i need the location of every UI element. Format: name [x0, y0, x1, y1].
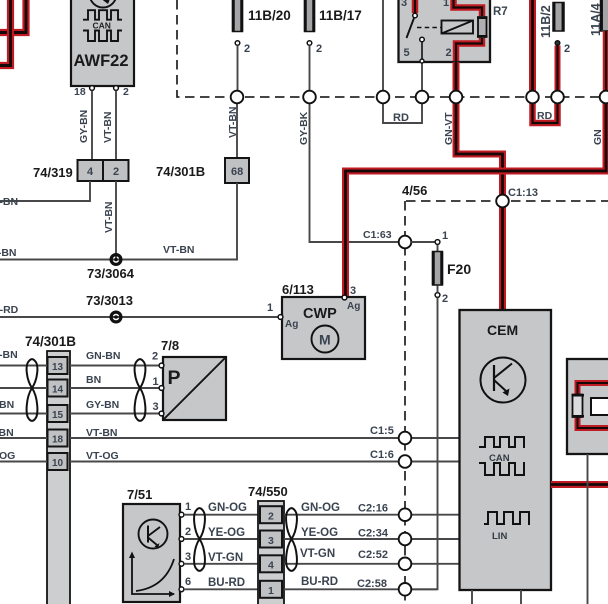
- svg-text:AWF22: AWF22: [74, 52, 129, 70]
- 74/550 pin 1: [260, 581, 282, 598]
- svg-text:VT-BN: VT-BN: [103, 202, 115, 234]
- pin 15: [48, 405, 68, 422]
- svg-text:74/319: 74/319: [33, 165, 73, 180]
- svg-text:74/301B: 74/301B: [156, 164, 205, 179]
- svg-text:M: M: [319, 332, 331, 348]
- wire red stub into relay pin 3: [412, 0, 419, 13]
- svg-text:GY-BN: GY-BN: [86, 399, 119, 411]
- svg-text:YE-OG: YE-OG: [208, 527, 245, 539]
- wire RD U-loop joining bus nodes below relay: [383, 104, 422, 124]
- svg-text:6: 6: [185, 576, 191, 588]
- wires into 74/301B from left edge: [0, 365, 47, 367]
- central electronic module CEM: [460, 310, 552, 590]
- twisted pair symbol right (before 7/8): [135, 359, 146, 421]
- svg-text:Y-BN: Y-BN: [0, 196, 18, 208]
- svg-text:BU-RD: BU-RD: [301, 576, 338, 588]
- 74/550 strip: [258, 501, 284, 604]
- svg-text:CEM: CEM: [487, 322, 518, 338]
- node C1:13: [496, 195, 509, 208]
- svg-text:GN-BN: GN-BN: [86, 350, 120, 362]
- wire red relay pin1 to resistor: [454, 0, 483, 16]
- F20 pin 2 terminal: [435, 293, 440, 298]
- terminal pin 2 of fuse 11B/17: [307, 41, 312, 46]
- 74/550 pin 3: [260, 531, 282, 548]
- svg-text:15: 15: [52, 410, 64, 421]
- svg-text:C1:5: C1:5: [370, 425, 394, 437]
- wire VT-BN from 74/319 pin2 down to splice: [115, 181, 117, 260]
- svg-text:Ag: Ag: [285, 319, 298, 330]
- node: bus connector at 11B/2 feeder: [526, 91, 539, 104]
- svg-text:3: 3: [268, 535, 274, 547]
- svg-text:1: 1: [268, 585, 274, 597]
- svg-text:1: 1: [153, 376, 159, 388]
- control unit AWF22 (top cut off): [71, 0, 134, 86]
- 74/550 pin 2: [260, 506, 282, 523]
- 74/550 pin 4: [260, 555, 282, 572]
- svg-text:2: 2: [316, 43, 322, 55]
- wires out of CEM bottom: [471, 590, 473, 604]
- wires 7/51 to 74/550: [184, 514, 258, 516]
- wire F20 down to C2:58 line: [411, 298, 437, 590]
- svg-text:C1:6: C1:6: [370, 449, 394, 461]
- svg-text:-OG: -OG: [0, 450, 15, 462]
- svg-text:18: 18: [52, 435, 64, 446]
- svg-text:6/113: 6/113: [282, 282, 314, 297]
- CAN symbol in AWF22: [83, 10, 122, 20]
- wire red C1:13 to CEM top: [499, 208, 506, 310]
- svg-text:N-RD: N-RD: [0, 304, 19, 316]
- svg-text:2: 2: [185, 526, 191, 538]
- 74/319 pin 2: [103, 160, 129, 181]
- svg-text:3: 3: [350, 285, 356, 297]
- LIN symbol in CEM: [484, 512, 530, 524]
- resistor inside relay: [478, 17, 487, 37]
- wire red RD U-loop right: [533, 104, 558, 124]
- svg-text:2: 2: [123, 86, 129, 98]
- svg-text:GY-BN: GY-BN: [78, 110, 90, 143]
- wire GY-BN AWF22 pin18 to 74/319 pin 4: [91, 91, 93, 161]
- svg-text:11B/2: 11B/2: [539, 5, 553, 38]
- 7/8 pin 3: [159, 411, 164, 416]
- svg-text:3: 3: [153, 401, 159, 413]
- svg-text:10: 10: [52, 458, 64, 469]
- relay coil: [442, 21, 474, 34]
- svg-text:14: 14: [52, 385, 64, 396]
- svg-text:RD: RD: [537, 110, 553, 122]
- twisted pair symbol between 7/51 and 74/550: [194, 508, 205, 571]
- wire red power bus y=171 from CWP branch to 11A/4 branch: [346, 104, 607, 298]
- label plate: [591, 398, 608, 415]
- svg-text:T-BN: T-BN: [0, 247, 17, 259]
- pin 14: [48, 380, 68, 397]
- wires 74/301B to 7/8: [70, 365, 160, 367]
- 7/51 pin 6: [179, 587, 184, 592]
- svg-text:RD: RD: [393, 112, 409, 124]
- svg-text:3: 3: [401, 0, 407, 9]
- transistor circle symbol in 7/51: [139, 520, 168, 549]
- svg-text:C2:16: C2:16: [358, 503, 388, 515]
- fuse element: [573, 395, 583, 418]
- svg-text:VT-BN: VT-BN: [86, 427, 118, 439]
- svg-text:2: 2: [442, 293, 448, 305]
- dashed fusebox boundary 11B (vertical + horizontal bus): [177, 0, 608, 97]
- wire red resistor to relay pin 2: [456, 38, 482, 61]
- svg-text:2: 2: [152, 351, 158, 363]
- wire from right fusebox down: [587, 454, 589, 604]
- fuse F20: [437, 245, 439, 252]
- wire red 11A/4 fuse down to bus node: [603, 31, 608, 91]
- svg-text:CWP: CWP: [303, 306, 337, 322]
- relay switch arm: [407, 18, 415, 38]
- pin 10: [48, 453, 68, 470]
- wire GY-BK from bus down then right to C1:63: [310, 104, 399, 243]
- svg-text:VT-BN: VT-BN: [227, 107, 239, 139]
- wires 74/550 to CEM C2 pins: [284, 514, 460, 516]
- svg-text:GN-OG: GN-OG: [208, 502, 247, 514]
- svg-text:GY-BK: GY-BK: [298, 111, 310, 145]
- svg-text:3: 3: [185, 551, 191, 563]
- fuse 11A/4 (cut at right edge): [601, 0, 608, 31]
- svg-text:2: 2: [113, 166, 119, 178]
- svg-text:1: 1: [442, 230, 448, 242]
- svg-text:68: 68: [231, 166, 243, 178]
- 74/319 pin 4: [78, 160, 104, 181]
- terminal pin 2 of fuse 11B/20: [235, 41, 240, 46]
- svg-text:1: 1: [443, 0, 449, 9]
- svg-text:2: 2: [244, 43, 250, 55]
- fuse 11B/17: [305, 0, 362, 32]
- svg-text:GN-VT: GN-VT: [443, 112, 455, 145]
- svg-text:11B/20: 11B/20: [248, 8, 291, 23]
- fuse 11B/20: [233, 0, 291, 32]
- relay switch pivot terminal: [413, 13, 418, 18]
- svg-text:4/56: 4/56: [402, 183, 427, 198]
- svg-text:F20: F20: [447, 261, 471, 277]
- fuse 11B/2 (right group): [553, 3, 564, 32]
- node C2:58: [399, 583, 412, 596]
- svg-text:C2:52: C2:52: [358, 549, 388, 561]
- CWP pin 1 terminal: [278, 315, 283, 320]
- AWF22 pin 2 terminal: [114, 86, 119, 91]
- node C1:5: [399, 432, 412, 445]
- wire red loop to fuse: [578, 383, 608, 396]
- node C2:52: [399, 558, 412, 571]
- wire red GN-VT: relay pin2 down through bus, over and down to C1:13: [456, 62, 503, 195]
- node C2:34: [399, 533, 412, 546]
- pin 13: [48, 357, 68, 374]
- svg-text:2: 2: [268, 511, 274, 523]
- node C2:16: [399, 508, 412, 521]
- wire red 11B/2 feeder from top: [529, 0, 536, 91]
- svg-text:73/3013: 73/3013: [86, 293, 133, 308]
- motor symbol M: [312, 326, 339, 353]
- wire VT-BN AWF22 pin2 to 74/319 pin 2: [115, 91, 117, 161]
- svg-text:CAN: CAN: [93, 21, 111, 31]
- relay pin 5 terminal: [420, 37, 425, 42]
- svg-text:4: 4: [87, 166, 94, 178]
- wire VT-BN from pin68 down then left to splice 73/3064: [0, 183, 237, 260]
- svg-text:74/301B: 74/301B: [25, 334, 76, 349]
- svg-text:-BN: -BN: [0, 399, 14, 411]
- svg-text:LIN: LIN: [492, 531, 507, 542]
- F20 pin 1 terminal: [435, 240, 440, 245]
- wire VT-OG pin10 to CEM C1:6: [70, 461, 460, 463]
- wire to CWP pin 1 (splice 73/3013): [0, 316, 279, 318]
- wire from top edge to bus node (feeds RD loop): [382, 0, 384, 91]
- wire VT-BN pin18 to CEM C1:5: [70, 437, 460, 439]
- node: bus connector at RD loop left: [377, 91, 390, 104]
- 7/51 pin 3: [179, 561, 184, 566]
- svg-text:-BN: -BN: [0, 427, 14, 439]
- wire red CEM output right: [551, 481, 608, 488]
- node C1:63: [399, 236, 412, 249]
- relay box (top cut off): [399, 0, 491, 63]
- svg-text:BN: BN: [86, 374, 101, 386]
- svg-text:VT-BN: VT-BN: [163, 244, 195, 256]
- wire: battery feed staircase top-left (outer): [0, 0, 26, 33]
- node: bus connector at 11B/2 fuse output: [551, 91, 564, 104]
- CAN symbol in CEM: [479, 437, 525, 447]
- terminal pin 2 of fuse: [555, 41, 560, 46]
- svg-text:VT-GN: VT-GN: [300, 548, 335, 560]
- AWF22 pin 18 terminal: [90, 86, 95, 91]
- svg-text:BU-RD: BU-RD: [208, 577, 245, 589]
- wire: battery feed staircase top-left (inner): [0, 0, 11, 66]
- 74/301B strip: [47, 351, 70, 604]
- 7/8 pin 1: [159, 386, 164, 391]
- 7/51 pin 2: [179, 537, 184, 542]
- wire VT-BN from bus node down to 74/301B pin 68: [236, 104, 238, 159]
- wire GY-BN from 74/319 pin4 to left edge: [0, 181, 90, 201]
- node: bus connector at 11B/17 wire: [303, 91, 316, 104]
- svg-text:13: 13: [52, 362, 64, 373]
- svg-text:18: 18: [74, 86, 86, 98]
- svg-text:1: 1: [185, 501, 191, 513]
- svg-text:4: 4: [268, 560, 274, 572]
- node: bus connector at GN-VT wire: [450, 91, 463, 104]
- wire red fuse to bus node: [555, 46, 561, 91]
- svg-text:R7: R7: [493, 6, 508, 18]
- node: bus connector at relay pin 5 wire: [416, 91, 429, 104]
- transistor circle symbol in CEM: [481, 358, 526, 403]
- right fusebox (cut at edge): [567, 359, 608, 454]
- svg-text:5: 5: [404, 47, 410, 59]
- svg-text:GN-OG: GN-OG: [301, 502, 340, 514]
- wire relay pin 5 down to bus node: [421, 63, 423, 91]
- pin 18: [48, 430, 68, 447]
- svg-text:C2:58: C2:58: [357, 578, 387, 590]
- svg-text:7/8: 7/8: [161, 338, 179, 353]
- relay mechanical link (dashed): [417, 27, 441, 29]
- svg-text:VT-GN: VT-GN: [208, 552, 243, 564]
- svg-text:Ag: Ag: [347, 301, 360, 312]
- 7/8 pin 2: [159, 363, 164, 368]
- twisted pair symbol right of 74/550: [286, 508, 297, 571]
- characteristic curve symbol: [132, 554, 174, 594]
- svg-text:C1:13: C1:13: [508, 187, 538, 199]
- svg-text:YE-OG: YE-OG: [301, 527, 338, 539]
- svg-text:VT-OG: VT-OG: [86, 450, 119, 462]
- wire fuse 11B/17 to bus: [309, 46, 311, 91]
- splice 73/3064: [111, 255, 121, 265]
- svg-text:C1:63: C1:63: [363, 229, 392, 241]
- svg-text:11A/4: 11A/4: [589, 3, 603, 36]
- svg-text:73/3064: 73/3064: [87, 266, 135, 281]
- 7/51 pin 1: [179, 512, 184, 517]
- transistor circle symbol (mostly cut): [90, 0, 117, 8]
- splice 73/3013: [111, 312, 121, 322]
- node: bus connector at 11A/4 fuse output: [600, 91, 608, 104]
- node C1:6: [399, 455, 412, 468]
- svg-text:GN: GN: [592, 129, 604, 145]
- svg-text:P: P: [168, 367, 181, 389]
- CWP pin 3 terminal: [342, 295, 347, 300]
- svg-text:2: 2: [446, 47, 452, 59]
- twisted pair symbol left of 74/301B: [27, 359, 38, 421]
- svg-text:C2:34: C2:34: [358, 528, 389, 540]
- svg-text:74/550: 74/550: [248, 484, 288, 499]
- wire C1:63 to F20 pin 1: [411, 241, 434, 243]
- svg-text:-BN: -BN: [0, 349, 18, 361]
- svg-text:7/51: 7/51: [127, 487, 152, 502]
- svg-text:11B/17: 11B/17: [319, 8, 362, 23]
- svg-text:1: 1: [267, 302, 273, 314]
- svg-text:VT-BN: VT-BN: [102, 112, 114, 144]
- wire fuse 11B/20 to bus: [237, 46, 239, 91]
- svg-text:2: 2: [564, 43, 570, 55]
- node: bus connector at 11B/20 wire: [231, 91, 244, 104]
